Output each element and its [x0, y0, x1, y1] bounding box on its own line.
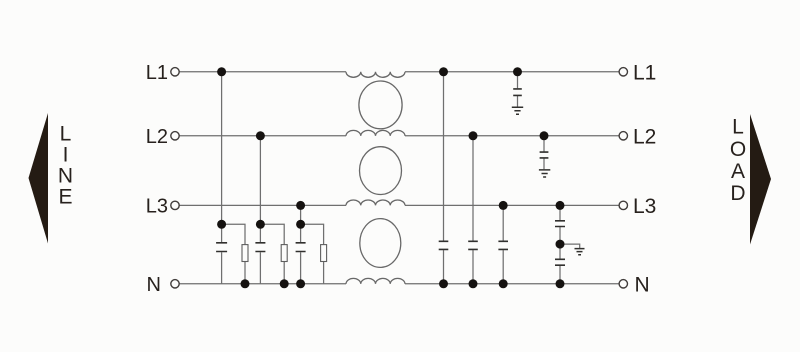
arrow LOAD (points right) — [750, 114, 771, 245]
wire C8 to ground stub — [543, 159, 545, 170]
inductor N winding — [346, 278, 405, 283]
wire R2 bottom to N — [283, 262, 285, 284]
wire RC1 branch to resistor R1 — [222, 224, 245, 244]
inductor L1 winding — [346, 72, 405, 77]
svg-text:N: N — [147, 274, 161, 296]
wire C5 bottom to N — [472, 250, 474, 284]
junction dot L1-C4 — [439, 67, 448, 76]
capacitor C8 plates — [540, 152, 549, 158]
junction dot RC1 top — [217, 220, 226, 229]
terminal L2 right — [619, 132, 627, 140]
svg-text:L2: L2 — [146, 126, 168, 148]
junction dot N-C6 — [499, 279, 508, 288]
wire L2 to cap C8 — [543, 136, 545, 152]
terminal L2 left — [171, 132, 179, 140]
wire mid node to earth branch — [560, 244, 580, 248]
core ellipse 2 — [360, 147, 402, 195]
junction dot L2-v2 — [256, 131, 265, 140]
wire R1 bottom to N — [244, 262, 246, 284]
terminal N left — [171, 280, 179, 288]
earth ground at mid node — [575, 249, 585, 255]
wire L1 rail right — [405, 71, 619, 73]
junction dot L2-C8 — [540, 131, 549, 140]
junction dot N-C3 — [296, 279, 305, 288]
inductor L2 winding — [346, 130, 405, 135]
capacitor C1 plates — [216, 243, 227, 252]
core ellipse 1 — [359, 81, 402, 129]
junction dot L2-C5 — [469, 131, 478, 140]
ground symbol under C7 — [512, 107, 523, 114]
terminal L1 right — [619, 68, 627, 76]
capacitor C5 plates — [468, 241, 478, 249]
junction dot N-C5 — [469, 279, 478, 288]
capacitor C10 plates — [555, 259, 565, 265]
junction dot earth mid node — [556, 240, 565, 249]
wire C7 to ground stub — [517, 96, 519, 107]
wire C4 bottom to N — [443, 250, 445, 284]
svg-text:A: A — [731, 160, 745, 183]
resistor R3 — [321, 245, 327, 262]
svg-text:D: D — [730, 182, 745, 205]
svg-text:L: L — [60, 123, 72, 146]
resistor R2 — [281, 245, 287, 262]
terminal L3 right — [619, 201, 627, 209]
junction dot N-R1 — [241, 279, 250, 288]
junction dot L3-C6 — [499, 201, 508, 210]
wire C9 to mid node — [559, 227, 561, 259]
junction dot N-R2 — [280, 279, 289, 288]
wire RC3 branch to resistor R3 — [301, 224, 324, 244]
wire L1 rail left — [179, 71, 346, 73]
junction dot L3-C9 — [556, 201, 565, 210]
wire N rail left — [179, 283, 346, 285]
arrow LINE (points left) — [29, 113, 49, 244]
capacitor C9 plates — [555, 221, 565, 227]
capacitor C2 plates — [255, 243, 265, 252]
junction dot L1-C7 — [513, 67, 522, 76]
wire from L3 down to RC3 top — [300, 205, 302, 242]
wire L2 rail left — [179, 135, 346, 137]
wire RC2 branch to resistor R2 — [260, 224, 284, 244]
junction dot L1-v1 — [217, 67, 226, 76]
junction dot N-C4 — [439, 279, 448, 288]
junction dot L3-v3 — [296, 201, 305, 210]
svg-text:L3: L3 — [146, 195, 168, 217]
svg-text:L2: L2 — [633, 125, 656, 148]
svg-text:L3: L3 — [633, 195, 656, 218]
terminal L3 left — [171, 201, 179, 209]
wire RC1 cap bottom to N — [221, 252, 223, 283]
label LOAD vertical — [730, 116, 746, 205]
label LINE vertical — [58, 123, 73, 209]
resistor R1 — [242, 245, 248, 262]
wire C6 bottom to N — [502, 250, 504, 284]
wire L2 down to cap C5 — [472, 136, 474, 241]
wire R3 bottom to N — [323, 262, 325, 284]
junction dot RC2 top — [256, 220, 265, 229]
wire L2 rail right — [405, 135, 619, 137]
wire from L1 down to RC1 top — [221, 72, 223, 242]
svg-text:L1: L1 — [146, 62, 168, 84]
wire RC2 cap bottom to N — [259, 252, 261, 283]
junction dot RC3 top — [296, 220, 305, 229]
terminal L1 left — [171, 68, 179, 76]
inductor L3 winding — [346, 200, 405, 205]
core ellipse 3 — [360, 219, 401, 268]
svg-text:E: E — [58, 186, 72, 209]
junction dot N-C10 — [556, 279, 565, 288]
wire L1 down to cap C4 — [443, 72, 445, 241]
terminal N right — [619, 280, 627, 288]
wire L3 to cap C9 — [559, 205, 561, 220]
svg-text:N: N — [635, 273, 650, 296]
capacitor C6 plates — [498, 241, 508, 249]
wire L3 rail right — [405, 204, 619, 206]
wire L3 down to cap C6 — [502, 205, 504, 240]
ground symbol under C8 — [539, 170, 550, 177]
wire C10 to N — [559, 266, 561, 284]
svg-text:O: O — [730, 138, 746, 161]
wire L3 rail left — [179, 204, 346, 206]
wire from L2 down to RC2 top — [259, 136, 261, 242]
svg-text:I: I — [63, 144, 69, 167]
svg-text:L: L — [732, 116, 744, 139]
wire L1 to cap C7 — [517, 72, 519, 88]
svg-text:L1: L1 — [633, 61, 656, 84]
capacitor C3 plates — [296, 243, 306, 252]
capacitor C4 plates — [439, 241, 449, 249]
wire RC3 cap bottom to N — [300, 252, 302, 283]
capacitor C7 plates — [513, 89, 522, 96]
svg-text:N: N — [58, 165, 73, 188]
wire N rail right — [405, 283, 619, 285]
